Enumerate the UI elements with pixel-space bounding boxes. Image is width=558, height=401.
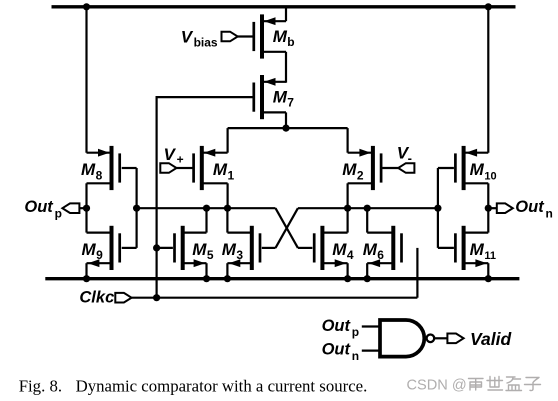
port V+ input [160, 163, 176, 173]
wire left latch node line [137, 207, 276, 209]
wire M4 source riser [347, 263, 349, 279]
wire M1 drain riser [227, 183, 229, 208]
node M6 source at bottom rail [364, 275, 371, 282]
port Vbias input [222, 32, 238, 42]
svg-text:-: - [408, 150, 412, 165]
port V- input [398, 163, 414, 173]
wire M11 gate [438, 247, 454, 249]
svg-text:Out: Out [24, 198, 54, 216]
watermark char Shi [487, 377, 503, 391]
wire top supply rail [52, 5, 516, 8]
wire Outp port to M8/M9 drains [79, 207, 86, 209]
node M6 drain on right latch node [364, 205, 371, 212]
wire M10 drain to M11 drain [487, 183, 489, 232]
port Clkc input [115, 293, 131, 303]
wire Mb drain to M7 source [285, 52, 287, 83]
svg-text:4: 4 [347, 248, 354, 262]
wire M6 source riser [366, 263, 368, 279]
node Outn [485, 205, 492, 212]
wire M9 source riser to bottom rail [85, 263, 87, 279]
svg-text:3: 3 [236, 248, 243, 262]
svg-text:10: 10 [484, 170, 496, 182]
svg-text:7: 7 [287, 96, 294, 110]
node M2/M4 drains on right latch node [344, 205, 351, 212]
transistor M7 [252, 75, 286, 119]
svg-text:V: V [181, 27, 194, 46]
svg-text:M: M [82, 240, 97, 259]
wire M5 source riser [205, 263, 207, 279]
wire cross-couple diagonal right-node to M3 gate [276, 208, 298, 248]
svg-text:M: M [213, 160, 228, 179]
wire NAND input n [362, 350, 379, 352]
wire M4 gate [298, 247, 313, 249]
port Valid output [447, 334, 463, 344]
node M5 source at bottom rail [203, 275, 210, 282]
wire V+ port to M1 gate [177, 167, 193, 169]
svg-text:1: 1 [228, 168, 235, 182]
node Clkc tap to riser [153, 294, 160, 301]
watermark char Zi [525, 378, 541, 391]
wire M5 gate [157, 247, 173, 249]
node M10/M11 gate tap on right latch node [434, 205, 441, 212]
NAND gate U1 body [380, 320, 424, 357]
node Outp [83, 205, 90, 212]
svg-text:Out: Out [515, 198, 545, 216]
svg-text:8: 8 [96, 168, 103, 182]
node M1/M3 drains on left latch node [224, 205, 231, 212]
wire right latch node line [298, 207, 438, 209]
wire Mb source riser to top rail [285, 7, 287, 21]
svg-text:M: M [81, 160, 96, 179]
transistor M3 [227, 226, 261, 270]
svg-text:M: M [273, 88, 288, 107]
node M9 source at bottom rail [83, 275, 90, 282]
node M5 drain on left latch node [203, 205, 210, 212]
svg-text:M: M [342, 160, 357, 179]
wire M9 gate [122, 247, 137, 249]
node M1/M2 common source junction [282, 125, 289, 132]
svg-text:p: p [55, 207, 62, 221]
svg-text:Out: Out [322, 317, 352, 335]
wire right rail drop to M10 source [487, 7, 489, 153]
svg-text:n: n [352, 349, 359, 363]
port Outp output [62, 203, 79, 213]
node M11 source at bottom rail [485, 275, 492, 282]
watermark char Zai [469, 379, 484, 391]
wire M7 gate to Clkc riser [156, 96, 254, 98]
wire M10/M11 gate riser [437, 168, 439, 248]
wire M1 source riser [227, 128, 229, 153]
transistor M6 [367, 226, 403, 270]
wire M5 drain riser [205, 208, 207, 232]
svg-text:M: M [222, 240, 237, 259]
transistor M11 [454, 226, 488, 270]
wire M4 drain riser [347, 208, 349, 232]
watermark char Meng [506, 377, 522, 391]
wire bottom supply rail [45, 277, 519, 280]
transistor M2 [348, 146, 383, 190]
svg-text:M: M [273, 27, 288, 46]
svg-text:5: 5 [207, 248, 214, 262]
wire NAND input p [362, 325, 379, 327]
wire Clkc line [132, 297, 418, 299]
svg-text:Clkc: Clkc [79, 288, 114, 306]
transistor Mb [252, 14, 286, 58]
transistor M1 [192, 146, 227, 190]
svg-text:Out: Out [322, 341, 352, 359]
wire M3 drain riser [226, 208, 228, 232]
wire M8/M9 gate riser [136, 168, 138, 248]
wire M10 gate [438, 167, 454, 169]
node M3 source at bottom rail [224, 275, 231, 282]
wire M6 drain riser [366, 208, 368, 232]
svg-text:11: 11 [484, 250, 496, 262]
transistor M4 [313, 226, 348, 270]
node M5 gate tap on Clkc riser [153, 244, 160, 251]
svg-text:M: M [363, 240, 378, 259]
svg-text:n: n [546, 207, 553, 221]
transistor M10 [454, 146, 488, 190]
wire M1/M2 common source line [228, 127, 348, 129]
node top rail left junction [83, 3, 90, 10]
svg-text:9: 9 [96, 248, 103, 262]
svg-text:M: M [192, 240, 207, 259]
NAND gate U1 inversion bubble [427, 335, 435, 343]
wire M7 drain riser [285, 112, 287, 128]
node M8/M9 gate tap on left latch node [133, 205, 140, 212]
svg-text:b: b [287, 35, 294, 49]
transistor M9 [87, 226, 122, 270]
wire Vbias port to Mb gate [238, 35, 254, 37]
port Outn output [497, 203, 513, 213]
wire left rail drop to M8 source [85, 7, 87, 153]
svg-text:2: 2 [357, 168, 364, 182]
svg-text:p: p [352, 325, 359, 339]
svg-text:bias: bias [194, 35, 218, 49]
svg-text:Dynamic comparator with a curr: Dynamic comparator with a current source… [76, 376, 368, 395]
svg-text:M: M [470, 240, 485, 259]
svg-text:V: V [164, 145, 177, 164]
transistor M8 [87, 146, 122, 190]
node M4 source at bottom rail [344, 275, 351, 282]
svg-text:Fig. 8.: Fig. 8. [19, 376, 62, 395]
wire M11 source riser to bottom rail [487, 263, 489, 279]
wire M3 source riser [226, 263, 228, 279]
svg-text:6: 6 [377, 248, 384, 262]
wire Outn port to M10/M11 drains [488, 207, 497, 209]
wire V- port to M2 gate [382, 167, 398, 169]
wire M2 source riser [347, 128, 349, 153]
svg-text:M: M [332, 240, 347, 259]
svg-text:Valid: Valid [470, 329, 511, 349]
svg-text:M: M [470, 160, 485, 179]
transistor M5 [173, 226, 206, 270]
wire M8 gate [122, 167, 137, 169]
wire M2 drain riser [347, 183, 349, 208]
wire M3 gate [262, 247, 276, 249]
wire M6 gate riser from Clkc line [416, 248, 418, 298]
svg-text:+: + [177, 153, 184, 167]
wire NAND output [434, 337, 447, 339]
wire M8 drain to M9 drain [85, 183, 87, 232]
wire cross-couple diagonal left-node to M4 gate [276, 208, 298, 248]
wire Clkc riser (M7 gate / M5 gate / Clkc) [156, 97, 158, 298]
node top rail right junction [485, 3, 492, 10]
svg-text:CSDN @: CSDN @ [407, 377, 467, 393]
